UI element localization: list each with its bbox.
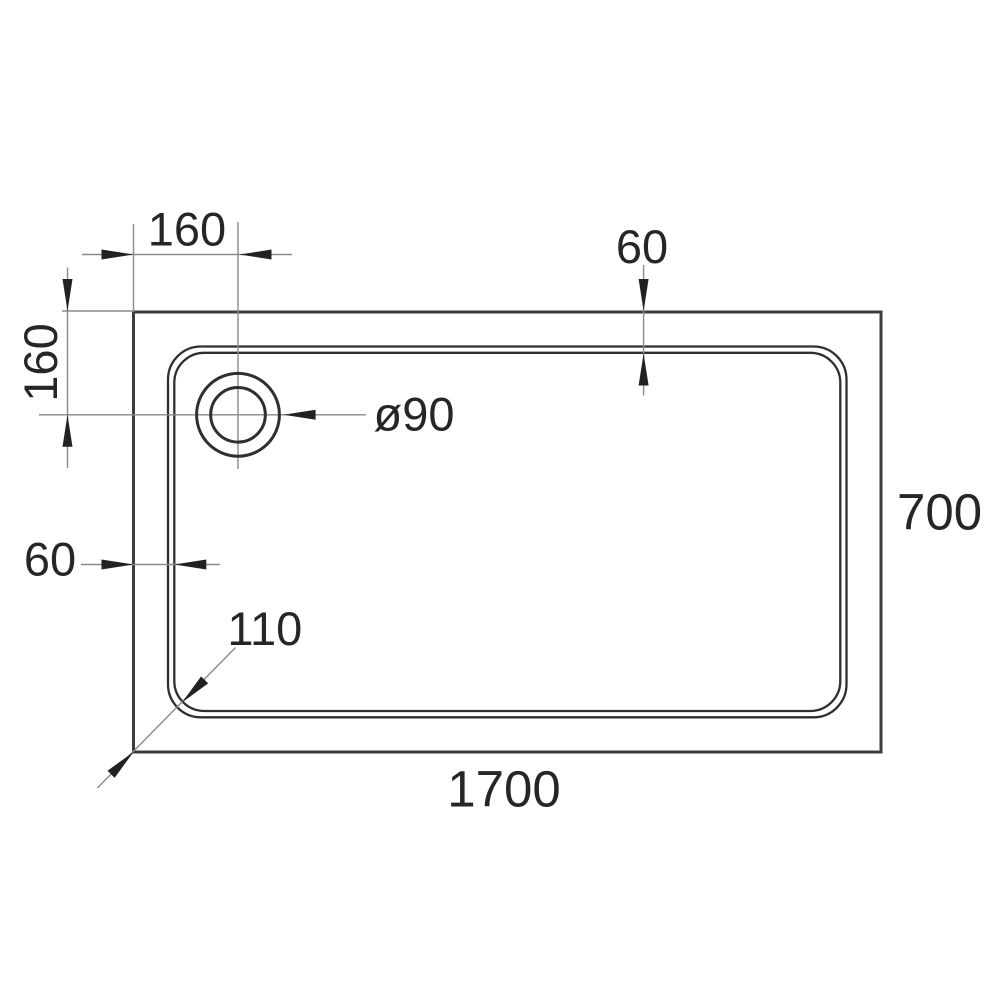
svg-text:160: 160 xyxy=(148,203,226,256)
svg-text:60: 60 xyxy=(616,220,668,273)
drain centerline horizontal xyxy=(39,414,366,416)
width label 1700 xyxy=(447,761,560,818)
dim 60 top vertical line xyxy=(643,265,645,396)
drain leader arrow xyxy=(284,410,316,420)
svg-text:ø90: ø90 xyxy=(374,388,455,441)
dim 60 top down arrow xyxy=(639,279,649,311)
dim 160 top label xyxy=(148,203,226,256)
drain inner circle xyxy=(211,388,266,443)
drain diameter label xyxy=(374,388,455,441)
dim 160 top extension line xyxy=(133,224,135,312)
tray outer rectangle xyxy=(134,312,882,752)
svg-text:1700: 1700 xyxy=(447,761,560,818)
dim 160 left dimension line xyxy=(67,268,69,469)
dim 160 top right arrow xyxy=(240,250,272,260)
height label 700 xyxy=(897,484,982,541)
dim 160 top left arrow xyxy=(102,250,134,260)
dim 110 label xyxy=(227,602,302,655)
dim 160 left top arrow xyxy=(63,279,73,311)
svg-text:160: 160 xyxy=(14,323,67,401)
dim 110 leader line xyxy=(97,648,235,788)
dim 160 left extension line xyxy=(62,310,134,312)
dim 110 arc arrow xyxy=(178,676,208,706)
dim 60 top up arrow xyxy=(639,354,649,386)
dim 60 top label xyxy=(616,220,668,273)
dim 60 left dimension line xyxy=(81,564,220,566)
dim 160 top dimension line xyxy=(82,254,292,256)
tray inner rim inner line xyxy=(174,353,840,711)
dim 60 left label xyxy=(24,533,76,586)
drain centerline vertical xyxy=(237,222,239,469)
dim 60 left right-pointing arrow xyxy=(102,560,134,570)
dim 110 corner arrow xyxy=(108,748,138,778)
dim 160 left label xyxy=(14,323,67,401)
tray inner rim outer line xyxy=(168,347,847,718)
svg-text:110: 110 xyxy=(227,602,302,655)
drain outer circle xyxy=(197,373,280,456)
dim 160 left bottom arrow xyxy=(63,415,73,447)
dim 60 left left-pointing arrow xyxy=(174,560,206,570)
svg-text:60: 60 xyxy=(24,533,76,586)
svg-text:700: 700 xyxy=(897,484,982,541)
